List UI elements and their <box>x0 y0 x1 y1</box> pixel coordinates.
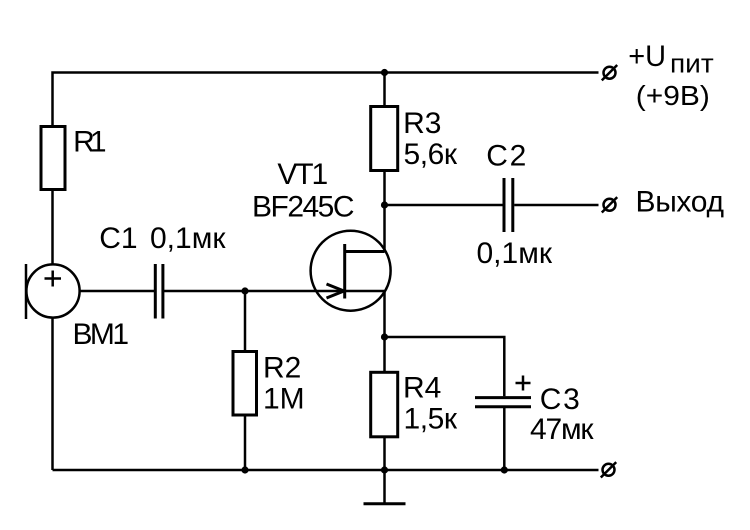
svg-text:R2: R2 <box>263 352 301 385</box>
svg-text:5,6к: 5,6к <box>404 138 458 171</box>
svg-text:Выход: Выход <box>636 185 725 218</box>
svg-text:1М: 1М <box>263 383 305 416</box>
svg-text:(+9В): (+9В) <box>636 80 710 111</box>
svg-text:R1: R1 <box>73 126 106 159</box>
svg-text:VT1: VT1 <box>277 158 328 191</box>
svg-text:пит: пит <box>670 49 714 79</box>
svg-text:С3: С3 <box>540 383 580 416</box>
svg-text:R3: R3 <box>403 107 441 140</box>
svg-text:BF245C: BF245C <box>252 191 355 224</box>
svg-text:+U: +U <box>628 40 666 73</box>
svg-text:С2: С2 <box>486 140 526 173</box>
svg-text:R4: R4 <box>403 372 441 405</box>
svg-text:0,1мк: 0,1мк <box>477 237 553 270</box>
svg-text:0,1мк: 0,1мк <box>150 222 226 255</box>
svg-text:1,5к: 1,5к <box>404 403 458 436</box>
svg-text:ВМ1: ВМ1 <box>73 318 130 351</box>
svg-text:47мк: 47мк <box>530 413 594 446</box>
svg-text:C1: C1 <box>99 222 137 255</box>
